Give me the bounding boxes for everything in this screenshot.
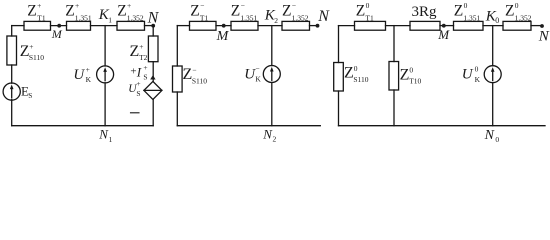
resistor Z-L352 bbox=[282, 1, 310, 30]
svg-text:1: 1 bbox=[109, 135, 113, 144]
svg-text:Z: Z bbox=[356, 3, 365, 20]
svg-text:0: 0 bbox=[475, 65, 479, 74]
svg-text:+: + bbox=[143, 63, 147, 72]
wire Z+L352 to node N bbox=[145, 25, 154, 27]
resistor 3Rg bbox=[410, 4, 440, 30]
svg-text:T1: T1 bbox=[365, 13, 374, 22]
resistor Z0T1 bbox=[355, 1, 386, 30]
svg-text:2: 2 bbox=[274, 16, 278, 25]
svg-text:Z: Z bbox=[400, 67, 410, 84]
svg-text:K: K bbox=[86, 75, 92, 84]
svg-text:Z: Z bbox=[505, 3, 514, 20]
svg-text:0: 0 bbox=[409, 66, 413, 75]
svg-text:I: I bbox=[136, 65, 142, 80]
svg-text:Z: Z bbox=[282, 3, 291, 20]
node M dot neg bbox=[222, 24, 226, 28]
source UK+ bbox=[73, 65, 113, 84]
node K2 label bbox=[264, 8, 279, 26]
wire Z0L351 to Z0L352 bbox=[483, 25, 503, 27]
wire Z+T2 to diamond bbox=[152, 62, 154, 82]
svg-text:1.351: 1.351 bbox=[463, 13, 480, 22]
svg-text:−: − bbox=[192, 66, 196, 75]
wire Z-T1 to Z-L351 bbox=[216, 25, 231, 27]
wire UK+ to bottom rail bbox=[104, 83, 106, 126]
resistor Z+T1 bbox=[24, 1, 51, 30]
svg-text:+: + bbox=[130, 66, 136, 78]
node N2 label bbox=[262, 126, 276, 143]
node K1 label bbox=[98, 7, 113, 25]
svg-text:U: U bbox=[244, 66, 256, 82]
resistor Z-T1 bbox=[190, 1, 217, 30]
resistor Z+S110 bbox=[7, 36, 44, 65]
node N dot zero bbox=[540, 24, 544, 28]
svg-text:0: 0 bbox=[464, 1, 468, 10]
svg-text:S: S bbox=[28, 92, 32, 100]
source UK- bbox=[244, 64, 280, 83]
svg-text:S: S bbox=[143, 73, 147, 82]
current arrow IS+ bbox=[130, 63, 155, 82]
svg-text:3Rg: 3Rg bbox=[412, 4, 438, 20]
node M dot bbox=[57, 24, 61, 28]
svg-text:M: M bbox=[437, 27, 450, 42]
wire left vertical middle bbox=[11, 65, 13, 83]
svg-text:M: M bbox=[216, 29, 230, 44]
resistor Z0T10 bbox=[389, 62, 422, 91]
svg-text:Z: Z bbox=[190, 3, 199, 20]
wire top-left horizontal neg bbox=[177, 25, 189, 27]
svg-text:S110: S110 bbox=[29, 53, 44, 62]
svg-text:1.352: 1.352 bbox=[127, 13, 144, 22]
node K2 vertical wire bbox=[271, 26, 273, 66]
resistor Z-S110 bbox=[173, 66, 208, 93]
svg-text:1.351: 1.351 bbox=[240, 13, 257, 22]
wire left vertical upper zero bbox=[338, 26, 340, 63]
svg-text:+: + bbox=[37, 1, 41, 10]
wire left vertical lower zero bbox=[338, 91, 340, 126]
node N dot bbox=[151, 24, 155, 28]
wire left vertical lower bbox=[11, 100, 13, 126]
wire UK0 to bottom rail bbox=[492, 83, 494, 126]
wire bottom rail N0 bbox=[339, 125, 546, 127]
wire N down to Z+T2 bbox=[152, 26, 154, 36]
wire UK- to bottom rail bbox=[271, 82, 273, 125]
wire Z-L352 to node N bbox=[310, 25, 317, 27]
svg-text:Z: Z bbox=[344, 65, 354, 82]
svg-text:Z: Z bbox=[130, 43, 140, 60]
wire left vertical lower neg bbox=[176, 92, 178, 126]
svg-text:+: + bbox=[75, 1, 79, 10]
wire top-left horizontal bbox=[12, 25, 24, 27]
svg-text:+: + bbox=[29, 42, 33, 51]
node T10 junction vertical wire bbox=[393, 26, 395, 62]
resistor Z+T2 bbox=[130, 36, 159, 62]
svg-text:Z: Z bbox=[454, 3, 463, 20]
svg-text:0: 0 bbox=[366, 1, 370, 10]
svg-text:N: N bbox=[538, 28, 550, 44]
svg-text:0: 0 bbox=[515, 1, 519, 10]
resistor Z+L351 bbox=[65, 1, 92, 30]
svg-text:M: M bbox=[51, 27, 63, 41]
svg-text:Z: Z bbox=[231, 3, 240, 20]
svg-text:1: 1 bbox=[108, 16, 112, 25]
source ES bbox=[3, 83, 32, 100]
svg-text:+: + bbox=[136, 79, 140, 88]
svg-text:U: U bbox=[73, 67, 85, 83]
wire top-left horizontal zero bbox=[339, 25, 355, 27]
resistor Z0L351 bbox=[454, 1, 484, 30]
svg-text:K: K bbox=[475, 75, 481, 84]
node K1 vertical wire bbox=[104, 26, 106, 66]
svg-text:K: K bbox=[255, 75, 261, 84]
wire 3Rg to Z0L351 bbox=[440, 25, 454, 27]
svg-text:1.351: 1.351 bbox=[75, 13, 92, 22]
node K0 vertical wire bbox=[492, 26, 494, 66]
svg-text:N: N bbox=[147, 10, 160, 27]
svg-text:T1: T1 bbox=[200, 13, 209, 22]
svg-text:1.352: 1.352 bbox=[292, 13, 309, 22]
svg-text:0: 0 bbox=[354, 64, 358, 73]
node N0 label bbox=[484, 128, 500, 144]
svg-text:N: N bbox=[317, 8, 330, 25]
svg-text:1.352: 1.352 bbox=[515, 13, 532, 22]
wire Z0L352 to node N bbox=[531, 25, 540, 27]
wire Z0T1 to 3Rg bbox=[386, 25, 411, 27]
svg-text:S110: S110 bbox=[192, 77, 207, 86]
wire Z0T10 to bottom rail bbox=[393, 90, 395, 126]
resistor Z0S110 bbox=[334, 63, 369, 92]
svg-text:0: 0 bbox=[495, 135, 499, 144]
svg-text:Z: Z bbox=[65, 3, 74, 20]
resistor Z+L352 bbox=[117, 1, 145, 30]
wire diamond to bottom rail bbox=[152, 99, 154, 125]
node N1 label bbox=[98, 127, 112, 144]
svg-text:−: − bbox=[200, 1, 204, 10]
svg-text:0: 0 bbox=[495, 16, 499, 25]
wire Z-L351 to Z-L352 bbox=[258, 25, 282, 27]
wire bottom rail N2 bbox=[177, 125, 320, 127]
svg-text:T1: T1 bbox=[37, 13, 46, 22]
svg-text:N: N bbox=[484, 128, 495, 143]
svg-text:+: + bbox=[139, 42, 143, 51]
svg-text:T10: T10 bbox=[409, 77, 421, 86]
svg-text:Z: Z bbox=[117, 3, 126, 20]
resistor Z0L352 bbox=[503, 1, 532, 30]
wire between Z+T1 and Z+L351 bbox=[51, 25, 67, 27]
svg-text:Z: Z bbox=[183, 66, 193, 83]
svg-text:S: S bbox=[136, 89, 140, 98]
wire bottom rail N1 bbox=[12, 125, 154, 127]
wire between Z+L351 and Z+L352 bbox=[91, 25, 118, 27]
node N dot neg bbox=[316, 24, 320, 28]
source UK0 bbox=[462, 65, 501, 84]
svg-text:U: U bbox=[462, 67, 474, 83]
wire left vertical upper bbox=[11, 26, 13, 36]
resistor Z-L351 bbox=[231, 1, 258, 30]
node M dot zero bbox=[442, 24, 446, 28]
dependent source US+ diamond bbox=[128, 79, 162, 113]
svg-text:+: + bbox=[127, 1, 131, 10]
node K0 label bbox=[485, 8, 500, 25]
wire left vertical upper neg bbox=[176, 26, 178, 66]
svg-text:−: − bbox=[255, 64, 259, 73]
svg-text:T2: T2 bbox=[139, 53, 148, 62]
svg-text:−: − bbox=[241, 1, 245, 10]
svg-text:−: − bbox=[292, 1, 296, 10]
svg-text:S110: S110 bbox=[353, 75, 368, 84]
svg-text:Z: Z bbox=[27, 3, 36, 20]
svg-text:+: + bbox=[86, 65, 90, 74]
svg-text:2: 2 bbox=[273, 135, 277, 144]
